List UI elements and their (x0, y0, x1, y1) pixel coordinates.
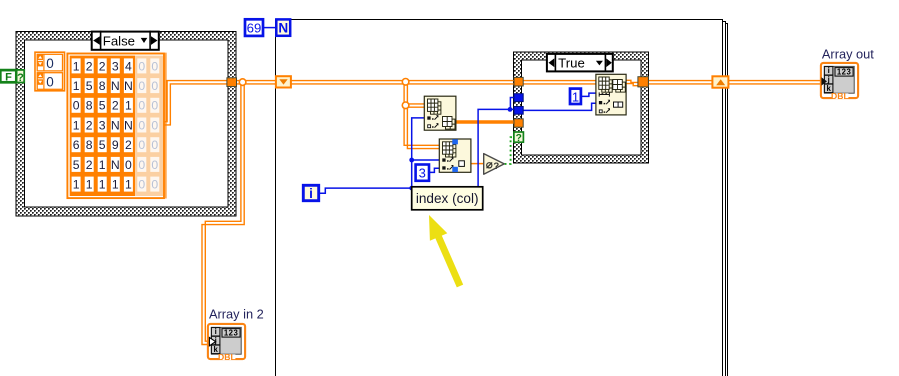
svg-text:index (col): index (col) (416, 191, 479, 206)
svg-text:0: 0 (73, 99, 80, 113)
svg-text:?: ? (493, 161, 499, 172)
svg-text:0: 0 (138, 79, 145, 93)
svg-text:1: 1 (112, 178, 119, 192)
svg-text:3: 3 (112, 59, 119, 73)
svg-text:1: 1 (73, 178, 80, 192)
svg-text:6: 6 (73, 138, 80, 152)
svg-text:5: 5 (99, 138, 106, 152)
svg-text:5: 5 (86, 79, 93, 93)
svg-text:0: 0 (138, 158, 145, 172)
svg-text:1: 1 (86, 178, 93, 192)
svg-text:2: 2 (99, 59, 106, 73)
svg-text:N: N (111, 79, 120, 93)
svg-text:2: 2 (112, 99, 119, 113)
svg-text:8: 8 (86, 99, 93, 113)
svg-text:N: N (278, 21, 288, 36)
svg-text:0: 0 (151, 178, 158, 192)
svg-text:0: 0 (151, 79, 158, 93)
svg-text:0: 0 (138, 118, 145, 132)
svg-text:?: ? (17, 72, 24, 84)
svg-text:9: 9 (112, 138, 119, 152)
svg-text:2: 2 (86, 118, 93, 132)
svg-text:1: 1 (572, 90, 579, 105)
svg-text:?: ? (516, 133, 522, 144)
svg-text:5: 5 (99, 99, 106, 113)
svg-text:False: False (103, 34, 135, 49)
svg-text:1: 1 (99, 178, 106, 192)
svg-text:0: 0 (46, 56, 54, 71)
svg-text:Array in 2: Array in 2 (209, 306, 264, 321)
svg-text:3: 3 (419, 166, 426, 181)
svg-text:1: 1 (125, 178, 132, 192)
svg-text:True: True (558, 55, 585, 70)
svg-text:0: 0 (151, 59, 158, 73)
svg-text:4: 4 (125, 59, 132, 73)
svg-text:0: 0 (151, 118, 158, 132)
svg-text:N: N (111, 118, 120, 132)
svg-text:8: 8 (99, 79, 106, 93)
svg-text:0: 0 (151, 158, 158, 172)
svg-text:0: 0 (46, 75, 54, 90)
svg-text:2: 2 (86, 59, 93, 73)
svg-text:1: 1 (73, 118, 80, 132)
svg-text:0: 0 (125, 158, 132, 172)
svg-text:2: 2 (125, 138, 132, 152)
svg-text:Array out: Array out (822, 47, 874, 62)
svg-text:0: 0 (138, 99, 145, 113)
svg-text:0: 0 (138, 178, 145, 192)
svg-text:0: 0 (138, 59, 145, 73)
svg-text:3: 3 (99, 118, 106, 132)
svg-text:69: 69 (247, 20, 262, 35)
svg-text:1: 1 (73, 59, 80, 73)
svg-text:2: 2 (86, 158, 93, 172)
svg-text:0: 0 (151, 138, 158, 152)
svg-text:1: 1 (125, 99, 132, 113)
svg-text:5: 5 (73, 158, 80, 172)
svg-text:N: N (124, 79, 133, 93)
svg-text:8: 8 (86, 138, 93, 152)
svg-text:N: N (111, 158, 120, 172)
svg-text:F: F (5, 72, 12, 84)
svg-text:1: 1 (73, 79, 80, 93)
svg-text:i: i (309, 186, 313, 201)
svg-text:0: 0 (151, 99, 158, 113)
svg-text:N: N (124, 118, 133, 132)
svg-text:0: 0 (138, 138, 145, 152)
svg-text:1: 1 (99, 158, 106, 172)
